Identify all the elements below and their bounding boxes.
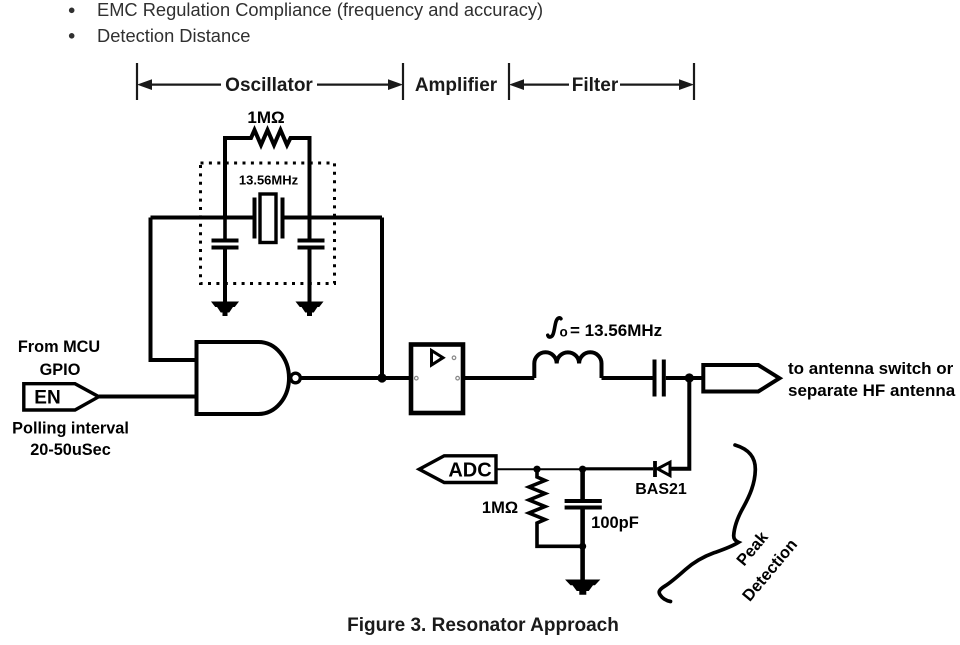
connector ADC [419,456,496,483]
wire feedback right [380,218,384,379]
svg-text:EN: EN [34,388,60,409]
svg-text:GPIO: GPIO [40,361,81,379]
resistor R2 1MOhm vertical [529,469,583,546]
brace peak detection [659,445,755,602]
svg-text:BAS21: BAS21 [635,481,687,498]
wire inductor to cap [602,376,653,380]
label fo = 13.56MHz [548,318,662,340]
connector EN [24,384,99,410]
svg-text:separate HF antenna: separate HF antenna [788,381,956,400]
wire crystal row [151,216,383,220]
bullet Detection Distance [69,25,251,46]
resistor R1 1MOhm [225,130,310,218]
wire junction down to diode row [670,378,690,469]
diode D1 [655,461,670,477]
svg-text:Amplifier: Amplifier [415,75,498,96]
bullet EMC Regulation [69,0,543,20]
capacitor C4 100pF [565,469,602,580]
svg-text:ADC: ADC [448,460,491,482]
wire amp to inductor [463,376,534,380]
connector antenna out [703,365,779,392]
crystal Y1 [255,194,283,243]
svg-text:EMC Regulation Compliance (fre: EMC Regulation Compliance (frequency and… [97,0,543,20]
inductor L1 [534,352,601,378]
section span Oscillator [137,63,403,100]
junction dot RC bottom [579,543,586,550]
svg-text:Detection Distance: Detection Distance [97,25,250,46]
NAND gate U1 [197,342,290,414]
label Peak Detection rotated [718,518,801,605]
NAND bubble [291,373,301,383]
svg-text:= 13.56MHz: = 13.56MHz [570,321,662,340]
wire feedback left [151,218,197,361]
dashed box crystal module [201,163,335,284]
svg-text:20-50uSec: 20-50uSec [30,441,111,459]
svg-text:Oscillator: Oscillator [225,75,313,96]
svg-text:1MΩ: 1MΩ [482,499,518,517]
svg-text:to antenna switch or: to antenna switch or [788,359,954,378]
junction dot C [579,466,586,473]
ground left [212,302,238,316]
svg-text:13.56MHz: 13.56MHz [239,173,299,188]
section tick Amplifier-left [403,63,509,100]
amplifier U2 [411,345,463,414]
junction dot antenna [685,373,694,382]
ground right [297,302,323,316]
junction dot feedback [377,373,386,382]
svg-text:Filter: Filter [572,75,619,96]
wire RC to ADC [496,468,583,470]
capacitor C2 right [298,218,325,303]
svg-text:100pF: 100pF [591,514,639,532]
wire EN to NAND [99,395,197,399]
svg-text:Polling interval: Polling interval [12,420,129,438]
svg-text:From MCU: From MCU [18,338,100,356]
svg-text:1MΩ: 1MΩ [247,108,284,127]
junction dot R [533,466,540,473]
wire cap to connector [666,376,704,380]
section span Filter [509,63,694,100]
wire diode to RC [583,467,653,470]
capacitor C1 left [212,218,239,303]
svg-text:Figure 3. Resonator Approach: Figure 3. Resonator Approach [347,615,619,636]
wire NAND out to amp [300,376,411,380]
capacitor C3 series [655,360,664,397]
ground bottom [566,580,599,594]
svg-text:o: o [560,325,568,340]
